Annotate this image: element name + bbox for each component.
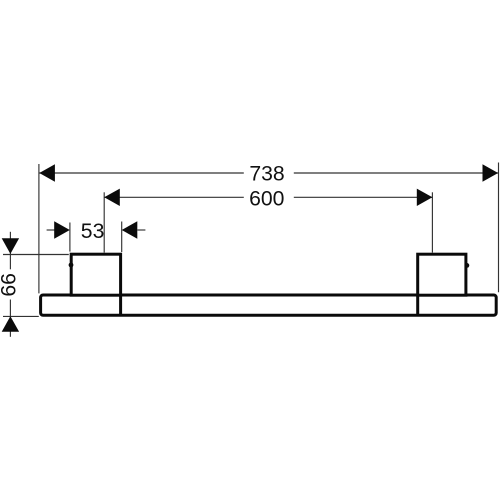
dimension 53 left arrowhead — [54, 221, 70, 238]
dimension 738 left arrowhead — [39, 164, 55, 181]
dimension 600 value label — [249, 187, 284, 210]
dimension 53 value label — [81, 220, 105, 243]
dimension 53 right tail line — [137, 229, 145, 231]
dimension 66 bottom tick line — [3, 315, 39, 317]
dimension 600 right extension line — [431, 192, 433, 252]
right post flange — [418, 254, 466, 295]
left post inner edge divider through bar — [119, 296, 122, 317]
dimension 53 left tail line — [47, 229, 55, 231]
right post inner edge divider through bar — [416, 296, 419, 317]
dimension 738 right arrowhead — [483, 164, 499, 181]
dimension 66 up arrowhead — [2, 316, 19, 332]
dimension 600 left arrowhead — [104, 189, 120, 206]
svg-text:66: 66 — [0, 273, 21, 297]
svg-text:738: 738 — [249, 163, 284, 186]
left post flange — [71, 254, 120, 295]
right post set-screw bump — [465, 263, 470, 268]
dimension 600 line right segment — [294, 196, 433, 198]
dimension 66 line — [9, 232, 11, 337]
svg-text:53: 53 — [81, 220, 105, 243]
dimension 738 right extension line — [498, 163, 500, 293]
dimension 738 line right segment — [294, 172, 498, 174]
dimension 600 line left segment — [104, 196, 244, 198]
dimension 738 line left segment — [39, 172, 244, 174]
left post set-screw bump — [69, 263, 74, 268]
dimension 66 value label — [0, 273, 21, 297]
dimension 66 top tick line — [3, 254, 69, 256]
dimension 53 right extension line — [121, 222, 123, 253]
dimension 600 right arrowhead — [417, 189, 433, 206]
svg-text:600: 600 — [249, 187, 284, 210]
grab bar body — [41, 295, 497, 315]
dimension 53 right arrowhead — [122, 221, 138, 238]
dimension 738 value label — [249, 163, 284, 186]
dimension 53 left extension line — [69, 223, 71, 252]
dimension 600 left extension line — [103, 192, 105, 252]
dimension 66 down arrowhead — [2, 238, 19, 254]
dimension 738 left extension line — [38, 164, 40, 293]
